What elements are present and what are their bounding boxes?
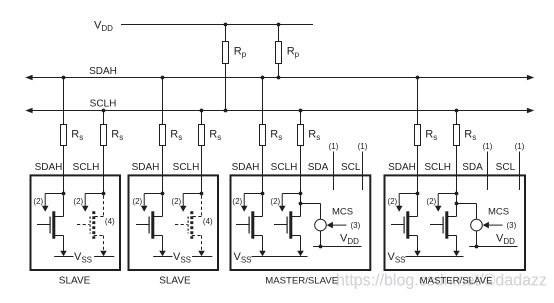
- node MCS tap on SCLH leg master/slave1: [299, 202, 303, 206]
- svg-text:(1): (1): [358, 142, 368, 151]
- wire input branch with arrow (2) for Q3a: [241, 194, 263, 212]
- node VDD / Rp1 junction: [224, 23, 228, 27]
- svg-text:(2): (2): [73, 197, 83, 206]
- resistor Rs2: [101, 125, 124, 146]
- resistor Rp1: [223, 42, 247, 64]
- control arrow (3) into MCS master/slave1: [327, 222, 347, 229]
- resistor Rs4: [199, 125, 222, 146]
- wire input branch with arrow (2) for Q4a: [396, 194, 418, 212]
- node junction dot for Q4a: [416, 192, 420, 196]
- svg-text:(2): (2): [33, 197, 43, 206]
- wire bus drop for Rs4 (slave2 SCLH): [201, 111, 203, 194]
- wire SDA/SCL stub x=333.5: [333, 152, 335, 191]
- node junction dot for Q1b: [102, 192, 106, 196]
- wire Rp1 from VDD rail: [225, 25, 227, 111]
- node bus tap Rs7 (ms2 SDAH): [416, 76, 420, 80]
- node junction dot for Q3a: [261, 192, 265, 196]
- node bus tap Rs4 (slave2 SCLH): [200, 109, 204, 113]
- node VDD / Rp2 junction: [277, 23, 281, 27]
- node junction dot for Q2b: [200, 192, 204, 196]
- svg-text:SDAH: SDAH: [388, 162, 416, 173]
- ground rail VSS slave2: [153, 251, 212, 264]
- svg-text:MCS: MCS: [488, 207, 509, 218]
- svg-text:(1): (1): [329, 142, 339, 151]
- ground rail VSS master/slave1: [234, 251, 308, 264]
- svg-text:(2): (2): [270, 197, 280, 206]
- node bus tap Rs2 (slave1 SCLH): [102, 109, 106, 113]
- transistor Q1a: [37, 196, 67, 257]
- ground rail VSS slave1: [54, 251, 114, 264]
- resistor Rp2: [276, 42, 300, 64]
- svg-text:(2): (2): [387, 197, 397, 206]
- wire MCS tap to current source master/slave1: [301, 204, 321, 220]
- resistor Rs7: [415, 125, 438, 146]
- svg-text:MASTER/SLAVE: MASTER/SLAVE: [420, 276, 493, 287]
- wire SDA/SCL stub x=362.5: [362, 152, 364, 191]
- wire bus drop for Rs8 (ms2 SCLH): [456, 111, 458, 194]
- transistor Q3a: [236, 196, 266, 257]
- svg-text:SCL: SCL: [341, 162, 361, 173]
- svg-text:SDAH: SDAH: [132, 162, 160, 173]
- current source MCS master/slave2: [471, 219, 483, 231]
- wire input branch with arrow (2) for Q4b: [435, 194, 457, 212]
- wire SDA/SCL stub x=519.5: [519, 152, 521, 191]
- wire VDD rail: [121, 24, 313, 26]
- svg-text:SDAH: SDAH: [89, 66, 117, 77]
- ground rail VSS master/slave2: [388, 251, 464, 264]
- node bus tap Rs6 (ms1 SCLH): [299, 109, 303, 113]
- svg-text:SDA: SDA: [462, 162, 483, 173]
- transistor Q1b: [77, 196, 107, 257]
- node junction dot for Q2a: [161, 192, 165, 196]
- svg-text:SCLH: SCLH: [173, 162, 200, 173]
- resistor Rs5: [260, 125, 283, 146]
- wire Rp2 from VDD rail: [278, 25, 280, 78]
- svg-text:SDA: SDA: [308, 162, 329, 173]
- control arrow (3) into MCS master/slave2: [483, 222, 503, 229]
- wire MCS to VDD rail master/slave1: [320, 231, 322, 247]
- node junction dot for Q1a: [62, 192, 66, 196]
- device box 3 (MASTER/SLAVE) outline: [231, 175, 371, 270]
- svg-text:(2): (2): [132, 197, 142, 206]
- current source MCS master/slave1: [315, 219, 327, 231]
- node bus tap Rs1 (slave1 SDAH): [62, 76, 66, 80]
- svg-text:SLAVE: SLAVE: [159, 276, 191, 287]
- wire MCS to VDD rail master/slave2: [476, 231, 478, 247]
- node MCS/VDD junction master/slave2: [475, 245, 479, 249]
- power rail VDD master/slave2: [469, 233, 517, 247]
- wire SDA/SCL stub x=487.5: [487, 152, 489, 191]
- transistor Q2a: [136, 196, 166, 257]
- svg-text:(3): (3): [351, 221, 361, 230]
- svg-text:MASTER/SLAVE: MASTER/SLAVE: [265, 276, 338, 287]
- transistor Q2b: [175, 196, 205, 257]
- node bus tap Rs3 (slave2 SDAH): [161, 76, 165, 80]
- node Rp1 to SCLH junction: [224, 109, 228, 113]
- wire input branch with arrow (2) for Q2a: [141, 194, 163, 212]
- svg-text:SDAH: SDAH: [232, 162, 260, 173]
- transistor Q3b: [274, 196, 304, 257]
- device box 1 (SLAVE) outline: [31, 175, 121, 270]
- wire bus drop for Rs1 (slave1 SDAH): [63, 78, 65, 194]
- transistor Q4b: [430, 196, 460, 257]
- wire bus drop for Rs5 (ms1 SDAH): [262, 78, 264, 194]
- node junction dot for Q4b: [455, 192, 459, 196]
- resistor Rs8: [454, 125, 477, 146]
- resistor Rs6: [298, 125, 321, 146]
- wire input branch with arrow (2) for Q1b: [82, 194, 104, 212]
- wire bus drop for Rs3 (slave2 SDAH): [162, 78, 164, 194]
- device box 4 (MASTER/SLAVE) outline: [385, 175, 526, 270]
- svg-text:(2): (2): [232, 197, 242, 206]
- svg-text:MCS: MCS: [332, 207, 353, 218]
- device box 2 (SLAVE) outline: [129, 175, 219, 270]
- svg-text:(4): (4): [203, 217, 213, 226]
- svg-text:(2): (2): [171, 197, 181, 206]
- wire input branch with arrow (2) for Q2b: [180, 194, 202, 212]
- svg-text:SCL: SCL: [496, 162, 516, 173]
- svg-text:(2): (2): [426, 197, 436, 206]
- wire SDAH bus line: [25, 75, 534, 80]
- resistor Rs3: [160, 125, 183, 146]
- svg-text:(1): (1): [515, 142, 525, 151]
- svg-text:SLAVE: SLAVE: [59, 276, 91, 287]
- transistor Q4a: [391, 196, 421, 257]
- power rail VDD master/slave1: [313, 233, 361, 247]
- node bus tap Rs8 (ms2 SCLH): [455, 109, 459, 113]
- node bus tap Rs5 (ms1 SDAH): [261, 76, 265, 80]
- svg-text:SCLH: SCLH: [424, 162, 451, 173]
- svg-text:SDAH: SDAH: [35, 162, 63, 173]
- node MCS tap on SCLH leg master/slave2: [455, 202, 459, 206]
- node Rp2 to SDAH junction: [277, 76, 281, 80]
- wire bus drop for Rs2 (slave1 SCLH): [103, 111, 105, 194]
- svg-text:(1): (1): [483, 142, 493, 151]
- wire input branch with arrow (2) for Q1a: [42, 194, 64, 212]
- wire input branch with arrow (2) for Q3b: [279, 194, 301, 212]
- node junction dot for Q3b: [299, 192, 303, 196]
- wire SCLH bus line: [25, 108, 534, 113]
- svg-text:SCLH: SCLH: [271, 162, 298, 173]
- svg-text:SCLH: SCLH: [90, 98, 117, 109]
- wire MCS tap to current source master/slave2: [457, 204, 477, 220]
- wire bus drop for Rs7 (ms2 SDAH): [417, 78, 419, 194]
- resistor Rs1: [61, 125, 84, 146]
- wire bus drop for Rs6 (ms1 SCLH): [300, 111, 302, 194]
- svg-text:SCLH: SCLH: [73, 162, 100, 173]
- svg-text:(3): (3): [507, 221, 517, 230]
- svg-text:(4): (4): [105, 217, 115, 226]
- node MCS/VDD junction master/slave1: [319, 245, 323, 249]
